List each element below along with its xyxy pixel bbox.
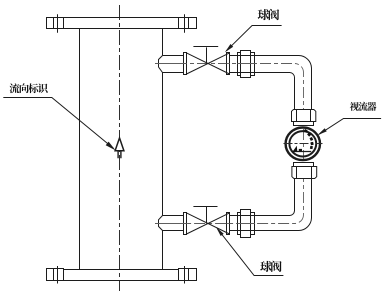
top valve stem and handle bbox=[206, 47, 208, 63]
label 球阀 top bbox=[258, 9, 279, 20]
bottom flange right bolt bbox=[179, 269, 197, 281]
top union bbox=[238, 53, 255, 76]
bottom flange plate bbox=[64, 270, 179, 281]
leader line 流向标识 bbox=[3, 98, 113, 149]
label 球阀 bottom bbox=[260, 261, 281, 272]
sight flow indicator body bbox=[286, 128, 320, 161]
leader line 视流器 bbox=[319, 119, 381, 135]
lower right pipe walls and elbow bbox=[255, 179, 295, 216]
bottom outlet stub bbox=[159, 216, 184, 231]
main pipe left wall bbox=[79, 29, 81, 269]
bottom union bbox=[238, 213, 255, 235]
main pipe centerline bbox=[119, 5, 121, 291]
top flange right bolt bbox=[179, 18, 197, 29]
leader line 球阀 bottom bbox=[218, 229, 284, 276]
bottom flange left bolt bbox=[47, 269, 64, 281]
label 流向标识 bbox=[10, 83, 48, 93]
sight glass upper nut bbox=[292, 110, 316, 122]
bottom ball valve body bbox=[184, 213, 187, 235]
sight glass paddle marks bbox=[304, 129, 314, 149]
bypass centerline bbox=[155, 63, 304, 223]
top flange left bolt bbox=[47, 18, 64, 29]
flow direction arrow symbol bbox=[115, 138, 124, 151]
top ball valve body bbox=[184, 53, 187, 75]
bottom branch pipe walls bbox=[230, 215, 238, 217]
sight glass lower nut bbox=[294, 163, 314, 167]
label 视流器 bbox=[350, 102, 377, 111]
leader line 球阀 top bbox=[227, 26, 282, 51]
top flange plate bbox=[64, 18, 179, 29]
top branch pipe walls and elbow bbox=[230, 56, 312, 110]
top outlet stub bbox=[159, 56, 184, 73]
bottom valve stem and handle bbox=[206, 207, 208, 224]
main pipe right wall bbox=[162, 29, 164, 55]
sight glass horizontal centerline bbox=[284, 143, 323, 145]
sight glass flapper bbox=[292, 151, 311, 153]
